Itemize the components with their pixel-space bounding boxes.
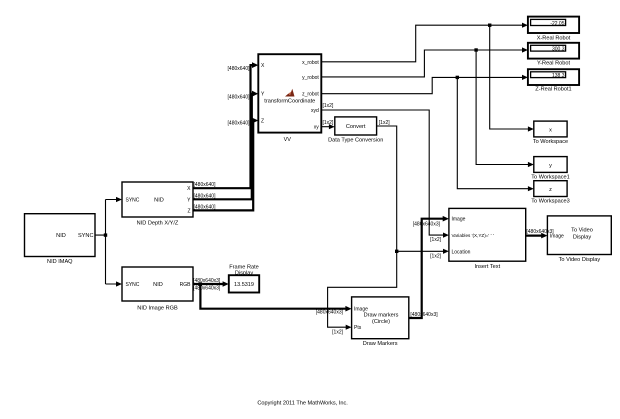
junction x_robot branch (488, 24, 491, 27)
svg-text:Convert: Convert (346, 124, 366, 130)
svg-text:138.3: 138.3 (552, 73, 565, 79)
svg-text:Draw Markers: Draw Markers (363, 341, 398, 347)
svg-text:Data Type Conversion: Data Type Conversion (328, 137, 383, 143)
svg-text:transformCoordinate: transformCoordinate (264, 99, 315, 105)
svg-text:[1x2]: [1x2] (430, 237, 441, 243)
svg-text:300.3: 300.3 (552, 47, 565, 53)
svg-text:NID Depth X/Y/Z: NID Depth X/Y/Z (137, 221, 179, 227)
svg-text:[1x2]: [1x2] (323, 103, 334, 109)
svg-text:[480x640]: [480x640] (228, 95, 251, 101)
svg-text:NID IMAQ: NID IMAQ (47, 259, 73, 265)
wire Z depth to transformCoordinate (193, 118, 258, 211)
block To Workspace3 (531, 181, 569, 205)
svg-text:To Workspace: To Workspace (533, 139, 568, 145)
svg-text:[480x640]: [480x640] (194, 182, 217, 188)
block NID Depth X/Y/Z (122, 182, 193, 227)
block display X-Real Robot (528, 17, 579, 42)
wire Draw Markers out to Insert Text Image (409, 216, 449, 318)
block To Workspace1 (531, 157, 569, 181)
wire x_robot branch to To Workspace (490, 25, 534, 131)
svg-text:To Workspace3: To Workspace3 (531, 199, 569, 205)
wire xy to Convert (321, 120, 335, 129)
svg-text:X-Real Robot: X-Real Robot (537, 36, 571, 42)
block NID Image RGB (122, 267, 193, 312)
junction z_robot branch (456, 76, 459, 79)
junction Convert out branch (395, 250, 398, 253)
svg-text:x: x (549, 127, 552, 133)
svg-text:[480x640x3]: [480x640x3] (413, 221, 441, 227)
wire Y depth to transformCoordinate (193, 91, 258, 200)
svg-text:y: y (549, 163, 552, 169)
svg-text:Pts: Pts (354, 325, 362, 331)
wire X depth to transformCoordinate (193, 62, 258, 188)
svg-text:[1x2]: [1x2] (332, 330, 343, 336)
svg-text:[480x640x3]: [480x640x3] (193, 286, 221, 292)
block display Z-Real Robot1 (528, 69, 579, 92)
wire y_robot to Y-Real Robot display (321, 47, 528, 77)
block Draw Markers (352, 297, 409, 347)
svg-text:Copyright 2011 The MathWorks,: Copyright 2011 The MathWorks, Inc. (257, 400, 348, 406)
junction y_robot branch (474, 48, 477, 51)
block Insert Text (449, 208, 526, 270)
svg-text:SYNC: SYNC (78, 233, 94, 239)
svg-text:Location: Location (452, 249, 471, 255)
svg-text:RGB: RGB (180, 282, 192, 288)
svg-text:Y-Real Robot: Y-Real Robot (537, 60, 571, 66)
svg-text:[480x640x3]: [480x640x3] (193, 278, 221, 284)
block transformCoordinate U1 (258, 54, 321, 143)
svg-text:[1x2]: [1x2] (323, 120, 334, 126)
wire RGB to Frame Rate Display (193, 278, 229, 292)
wire xyd to Insert Text Variables (321, 103, 449, 243)
block Convert (Data Type Conversion) (328, 117, 383, 143)
svg-text:VV: VV (284, 137, 292, 143)
svg-text:13.5319: 13.5319 (234, 282, 254, 288)
svg-text:[480x640x3]: [480x640x3] (526, 229, 554, 235)
svg-text:x_robot: x_robot (302, 60, 319, 66)
svg-text:[480x640x3]: [480x640x3] (316, 310, 344, 316)
svg-text:[1x2]: [1x2] (430, 254, 441, 260)
wire x_robot to X-Real Robot display (321, 23, 528, 62)
svg-text:z_robot: z_robot (302, 92, 319, 98)
svg-text:Z-Real Robot1: Z-Real Robot1 (535, 86, 571, 92)
svg-text:NID Image RGB: NID Image RGB (137, 306, 178, 312)
wire RGB branch to Draw Markers Image (200, 284, 351, 316)
svg-text:xy: xy (314, 125, 320, 131)
svg-text:(Circle): (Circle) (372, 319, 390, 325)
svg-text:Z: Z (261, 119, 264, 125)
MATLAB logo icon (285, 89, 295, 97)
svg-text:Image: Image (452, 217, 466, 223)
svg-text:SYNC: SYNC (126, 197, 140, 203)
svg-text:-22.05: -22.05 (550, 21, 564, 27)
svg-text:Display: Display (573, 234, 592, 240)
wire SYNC from NID IMAQ to NID Depth and NID Image RGB (95, 197, 122, 287)
svg-text:Draw markers: Draw markers (364, 312, 399, 318)
svg-text:xyd: xyd (311, 108, 319, 114)
junction RGB branch (198, 282, 202, 286)
svg-text:[480x640]: [480x640] (194, 204, 217, 210)
junction SYNC branch (104, 233, 107, 236)
svg-text:To Video: To Video (571, 227, 593, 233)
svg-text:[1x2]: [1x2] (379, 120, 390, 126)
svg-text:y_robot: y_robot (302, 75, 319, 81)
svg-text:NID: NID (56, 233, 66, 239)
wire y_robot branch to To Workspace1 (476, 50, 534, 167)
block Frame Rate Display (229, 264, 259, 292)
wire Insert Text out to To Video Display (526, 233, 548, 239)
block To Workspace (533, 121, 568, 145)
block display Y-Real Robot (528, 43, 579, 67)
svg-text:Z: Z (187, 208, 190, 214)
svg-text:Display: Display (235, 270, 254, 276)
svg-text:[480x640x3]: [480x640x3] (410, 312, 438, 318)
svg-text:NID: NID (153, 282, 163, 288)
svg-text:To Video Display: To Video Display (559, 257, 601, 263)
svg-text:z: z (549, 187, 552, 193)
svg-text:Insert Text: Insert Text (474, 264, 500, 270)
svg-text:[480x640]: [480x640] (228, 66, 251, 72)
wire Convert out to Insert Text Location and Draw Markers Pts (328, 120, 449, 336)
svg-text:[480x640]: [480x640] (228, 121, 251, 127)
svg-text:Variables '(X,YZ)=' ' ': Variables '(X,YZ)=' ' ' (452, 233, 494, 238)
svg-text:To Workspace1: To Workspace1 (531, 175, 569, 181)
wire z_robot to Z-Real Robot1 display (321, 75, 528, 94)
block To Video Display (547, 216, 611, 263)
svg-text:SYNC: SYNC (126, 282, 140, 288)
svg-text:[480x640]: [480x640] (194, 193, 217, 199)
wire z_robot branch to To Workspace3 (457, 77, 534, 191)
svg-text:NID: NID (154, 198, 164, 204)
block NID IMAQ (25, 214, 96, 265)
